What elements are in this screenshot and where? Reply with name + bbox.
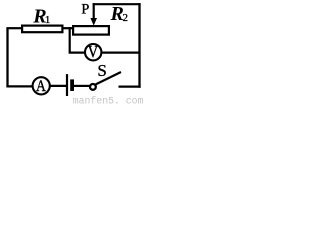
svg-text:manfen5. com: manfen5. com [73, 96, 143, 105]
resistor R1 [22, 26, 62, 33]
svg-text:S: S [97, 61, 106, 80]
voltmeter V [85, 44, 101, 60]
wire bottom-left [6, 85, 33, 87]
slider arrowhead [90, 18, 97, 26]
wire top-right horizontal [93, 3, 141, 5]
svg-text:2: 2 [123, 12, 129, 24]
battery long plate [66, 74, 68, 96]
ammeter A [33, 77, 50, 94]
rheostat R2 [73, 26, 109, 34]
svg-text:V: V [88, 43, 98, 61]
slider arrow [93, 3, 95, 19]
wire voltmeter to right [101, 51, 140, 53]
wire junction stub down to voltmeter [70, 27, 86, 52]
wire left vertical [6, 28, 8, 86]
wire R1 to rheostat [62, 27, 73, 29]
wire ammeter to battery [50, 85, 67, 87]
svg-text:P: P [81, 2, 89, 18]
switch hinge [90, 84, 96, 90]
svg-text:1: 1 [45, 14, 51, 26]
wire right vertical [138, 3, 140, 88]
switch lever [96, 72, 121, 84]
svg-text:A: A [36, 78, 46, 95]
wire battery to switch [74, 85, 90, 87]
wire bottom-right [119, 85, 141, 87]
wire top-left horizontal [6, 27, 22, 29]
battery short plate [70, 79, 74, 91]
